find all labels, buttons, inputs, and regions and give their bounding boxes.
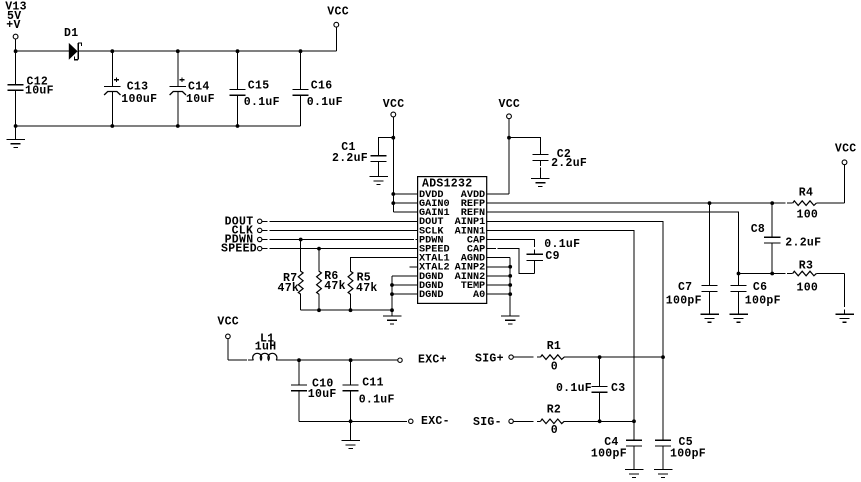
node PDWN/R7 junction — [299, 238, 303, 242]
svg-text:C16: C16 — [311, 80, 333, 93]
capacitor C13 100uF polarized — [104, 51, 157, 126]
ground below C5 — [654, 469, 673, 471]
terminal DOUT — [225, 215, 268, 228]
node TEMP — [508, 283, 512, 287]
inductor L1 1uH — [228, 333, 299, 361]
capacitor C9 0.1uF — [527, 238, 581, 273]
ground below C6 — [729, 313, 748, 315]
capacitor C7 100pF — [666, 203, 718, 314]
svg-text:C7: C7 — [678, 281, 692, 294]
node C11 bottom / ground — [349, 419, 353, 423]
svg-text:10uF: 10uF — [186, 93, 215, 106]
svg-text:0.1uF: 0.1uF — [556, 382, 592, 395]
node C2 tap — [507, 136, 511, 140]
svg-text:C9: C9 — [545, 250, 559, 263]
wire ground rail — [16, 125, 301, 127]
ground below C7 — [700, 313, 719, 315]
wire R1 to AINP1 — [564, 356, 663, 358]
wire DGND pins to ground — [392, 275, 418, 277]
svg-text:+V: +V — [6, 19, 20, 32]
node C11 top — [349, 358, 353, 362]
wire CLK to SCLK — [269, 229, 417, 231]
node AINP2 — [508, 265, 512, 269]
ground below C1 — [369, 176, 388, 178]
IC U1 ADS1232 — [418, 177, 487, 304]
source V13 +V terminal — [5, 1, 27, 52]
svg-text:10uF: 10uF — [25, 85, 54, 98]
resistor R2 0 — [513, 404, 564, 438]
capacitor C6 100pF — [730, 274, 780, 315]
svg-text:100: 100 — [797, 208, 819, 221]
ground digital — [383, 315, 402, 317]
resistor R3 100 — [787, 259, 844, 294]
terminal EXC- — [409, 415, 450, 428]
node C3 top — [598, 355, 602, 359]
node C3 bottom — [598, 419, 602, 423]
svg-text:VCC: VCC — [327, 5, 349, 18]
svg-text:A0: A0 — [473, 290, 485, 301]
svg-text:C14: C14 — [188, 81, 210, 94]
terminal SIG- — [473, 416, 513, 429]
svg-text:47k: 47k — [356, 282, 378, 295]
wire resistor bottoms to DGND ground — [301, 309, 392, 311]
svg-text:DGND: DGND — [419, 290, 443, 301]
wire CAP1 to C9 — [487, 240, 535, 248]
svg-text:1uH: 1uH — [255, 340, 277, 353]
ground below C2 — [531, 178, 550, 180]
svg-text:VCC: VCC — [383, 98, 405, 111]
terminal EXC+ — [398, 353, 447, 366]
svg-text:2.2uF: 2.2uF — [785, 236, 821, 249]
wire AVDD — [487, 193, 509, 195]
svg-text:SIG+: SIG+ — [475, 353, 504, 366]
svg-text:100pF: 100pF — [591, 447, 627, 460]
ground below C4 — [625, 469, 644, 471]
svg-text:C11: C11 — [362, 376, 384, 389]
ground analog — [501, 315, 520, 317]
svg-text:EXC+: EXC+ — [418, 353, 447, 366]
capacitor C8 2.2uF — [751, 203, 822, 273]
node GAIN0 junction — [391, 201, 395, 205]
power VCC terminal top — [327, 5, 349, 51]
svg-text:D1: D1 — [64, 27, 78, 40]
terminal PDWN — [225, 234, 268, 247]
wire DVDD/GAIN0/GAIN1 to VCC — [392, 138, 394, 213]
capacitor C2 2.2uF — [509, 138, 587, 179]
svg-text:C15: C15 — [248, 80, 270, 93]
wire SPEED to IC — [269, 248, 417, 250]
svg-text:VCC: VCC — [217, 316, 239, 329]
node REFP/C8 — [770, 201, 774, 205]
ground below C12 rail — [6, 126, 25, 147]
svg-text:100uF: 100uF — [121, 93, 157, 106]
svg-text:0.1uF: 0.1uF — [307, 96, 343, 109]
node REFP/C7 — [708, 201, 712, 205]
node DGND2 — [390, 283, 394, 287]
wire AINP1 down — [487, 221, 663, 357]
svg-text:VCC: VCC — [835, 143, 857, 156]
ground below R3 — [835, 313, 854, 315]
node R6 bottom — [317, 308, 321, 312]
resistor R1 0 — [513, 340, 564, 374]
node C1 tap — [391, 136, 395, 140]
wire CAP2 route — [487, 248, 496, 250]
svg-text:C6: C6 — [753, 281, 767, 294]
svg-text:VCC: VCC — [499, 98, 521, 111]
node AINN2 — [508, 274, 512, 278]
svg-text:10uF: 10uF — [308, 388, 337, 401]
svg-text:R1: R1 — [547, 340, 561, 353]
power VCC terminal (DVDD supply) — [383, 98, 405, 194]
wire C10/C11 bottoms to EXC- — [299, 420, 407, 422]
terminal SIG+ — [475, 353, 513, 366]
power VCC terminal (excitation) — [217, 316, 239, 361]
svg-text:0: 0 — [551, 361, 558, 374]
resistor R5 47k — [348, 271, 378, 310]
svg-text:47k: 47k — [278, 282, 300, 295]
capacitor C5 100pF — [655, 436, 706, 469]
capacitor C3 0.1uF — [556, 357, 625, 421]
node DGND/ground junction — [390, 308, 394, 312]
node AINN1/R2/C4 junction — [632, 419, 636, 423]
node AINP1/R1/C5 junction — [661, 355, 665, 359]
resistor R4 100 — [787, 187, 844, 222]
svg-text:100pF: 100pF — [670, 447, 706, 460]
wire R3 row — [739, 273, 786, 275]
wire REFN down — [487, 212, 739, 273]
svg-text:2.2uF: 2.2uF — [551, 157, 587, 170]
capacitor C12 10uF — [8, 51, 54, 126]
power VCC terminal right — [835, 143, 857, 204]
svg-text:100pF: 100pF — [666, 295, 702, 308]
pin XTAL2 stub — [410, 266, 418, 268]
wire REFP rail — [487, 202, 786, 204]
node A0 — [508, 292, 512, 296]
svg-text:47k: 47k — [324, 280, 346, 293]
svg-text:C8: C8 — [751, 223, 765, 236]
node REFN/C6/R3 junction — [737, 272, 741, 276]
node V13/rail junction — [14, 49, 18, 53]
resistor R7 47k — [278, 240, 304, 311]
wire R2 to AINN1 — [564, 420, 634, 422]
capacitor C15 0.1uF — [229, 51, 279, 126]
terminal CLK — [232, 224, 268, 237]
wire XTAL1 to R5 — [351, 258, 418, 272]
wire PDWN to IC — [269, 239, 414, 241]
svg-text:0.1uF: 0.1uF — [244, 96, 280, 109]
node ground rail junctions — [14, 124, 18, 128]
svg-text:0.1uF: 0.1uF — [359, 394, 395, 407]
resistor R6 47k — [317, 249, 346, 311]
wire top power rail — [16, 50, 69, 52]
svg-text:C3: C3 — [611, 382, 625, 395]
wire L1 to EXC+ — [299, 359, 398, 361]
capacitor C16 0.1uF — [292, 51, 342, 126]
svg-text:EXC-: EXC- — [421, 415, 450, 428]
diode D1 (schottky) — [64, 27, 82, 60]
capacitor C10 10uF — [291, 360, 337, 421]
wire DOUT to IC — [269, 220, 417, 222]
node C8 bottom junction — [770, 272, 774, 276]
power VCC terminal (AVDD supply) — [499, 98, 521, 194]
svg-text:SIG-: SIG- — [473, 416, 502, 429]
wire AINN1 down — [487, 230, 634, 421]
ground below C11 — [350, 421, 352, 440]
node DGND3 — [390, 292, 394, 296]
svg-text:R4: R4 — [799, 187, 813, 200]
capacitor C1 2.2uF — [332, 138, 393, 177]
wire AINP1 junction to C5 — [662, 357, 664, 440]
node SPEED/R6 junction — [317, 247, 321, 251]
node rail junctions — [110, 49, 114, 53]
node DVDD junction — [391, 192, 395, 196]
svg-text:ADS1232: ADS1232 — [422, 177, 472, 190]
capacitor C14 10uF polarized — [170, 51, 215, 126]
wire AGND pins to ground — [487, 257, 511, 259]
svg-text:0: 0 — [551, 424, 558, 437]
wire R3 to ground — [844, 274, 846, 308]
svg-text:C13: C13 — [127, 81, 149, 94]
node R5 bottom — [349, 308, 353, 312]
svg-text:100: 100 — [797, 282, 819, 295]
svg-text:100pF: 100pF — [745, 295, 781, 308]
node C10 top — [297, 358, 301, 362]
svg-text:R2: R2 — [547, 404, 561, 417]
capacitor C11 0.1uF — [343, 360, 395, 421]
capacitor C4 100pF — [591, 421, 642, 469]
terminal SPEED — [221, 243, 268, 256]
svg-text:2.2uF: 2.2uF — [332, 152, 368, 165]
svg-text:SPEED: SPEED — [221, 243, 257, 256]
svg-text:R3: R3 — [799, 259, 813, 272]
